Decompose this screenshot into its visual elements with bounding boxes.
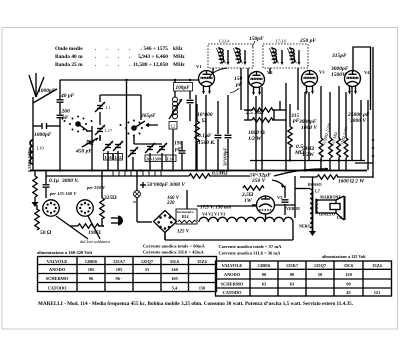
svg-text:Corrente anodica totale = 57 m: Corrente anodica totale = 57 mA xyxy=(219,244,283,249)
svg-text:V3: V3 xyxy=(319,70,325,75)
tube V1 xyxy=(196,64,227,94)
svg-text:140: 140 xyxy=(171,267,178,272)
svg-text:1W: 1W xyxy=(244,198,253,204)
main bus xyxy=(30,170,367,172)
wires heater to V5 xyxy=(164,233,166,241)
R14 box xyxy=(176,209,197,224)
svg-text:0.1μF: 0.1μF xyxy=(198,133,212,139)
tube V3 xyxy=(302,70,326,95)
svg-text:alimentazione a 160-220 Volt: alimentazione a 160-220 Volt xyxy=(37,250,93,255)
2.5 ohm 1W xyxy=(243,186,264,190)
svg-text:1500V: 1500V xyxy=(331,72,347,78)
svg-text:V4: V4 xyxy=(364,70,370,75)
svg-text:3000 V: 3000 V xyxy=(349,118,367,124)
svg-text:Banda 25 m: Banda 25 m xyxy=(55,62,83,68)
svg-text:Corrente anodica 31L6 = 36 m: Corrente anodica 31L6 = 36 mA xyxy=(219,251,282,256)
stub wires below bus xyxy=(113,171,161,176)
plug xyxy=(111,216,123,226)
IF transformer 1 dashed box L3,L4 xyxy=(208,44,253,68)
svg-text:35C6: 35C6 xyxy=(344,263,355,268)
trimmer L1 xyxy=(95,102,105,112)
electrolytic xyxy=(284,186,286,198)
svg-text:190Ω: 190Ω xyxy=(88,230,101,236)
tube V4 xyxy=(345,70,371,94)
svg-text:250 pF: 250 pF xyxy=(299,38,316,44)
svg-text:96 -: 96 - xyxy=(116,276,123,281)
svg-text:250 V: 250 V xyxy=(251,178,267,184)
svg-text:L17: L17 xyxy=(105,128,113,133)
left table xyxy=(38,257,217,292)
heater socket diamond xyxy=(154,211,177,233)
svg-text:1000pF: 1000pF xyxy=(38,88,56,94)
1600 ohm 2W xyxy=(317,175,338,179)
top right feedback loop xyxy=(353,47,371,110)
svg-text:per 125-160 V: per 125-160 V xyxy=(49,191,77,196)
svg-text:1/2W: 1/2W xyxy=(302,152,315,158)
svg-text:0,5MΩ 1/2W: 0,5MΩ 1/2W xyxy=(27,149,32,172)
socket 2 xyxy=(77,200,93,216)
IF transformer 2 dashed box L5,L6 xyxy=(263,44,308,68)
svg-text:per 220 V: per 220 V xyxy=(86,185,106,190)
0.1u 3000V xyxy=(34,170,36,176)
tuner verticals xyxy=(99,135,101,141)
svg-text:105: 105 xyxy=(116,267,123,272)
svg-text:1/2 W: 1/2 W xyxy=(248,136,262,142)
svg-text:MHz: MHz xyxy=(173,62,185,68)
svg-text:315pF: 315pF xyxy=(331,53,347,59)
svg-text:105: 105 xyxy=(88,267,95,272)
svg-text:325Ω: 325Ω xyxy=(103,195,117,201)
svg-text:5,4: 5,4 xyxy=(172,285,178,290)
svg-text:12BE6: 12BE6 xyxy=(258,263,271,268)
svg-text:100pF: 100pF xyxy=(176,85,191,91)
svg-text:SCHERMO: SCHERMO xyxy=(46,276,69,281)
svg-text:105: 105 xyxy=(171,276,178,281)
svg-text:SCHERMO: SCHERMO xyxy=(221,281,244,286)
svg-text:3000 V.: 3000 V. xyxy=(61,178,79,184)
svg-text:L16: L16 xyxy=(105,155,113,160)
svg-text:alimentazione a 125 Volt: alimentazione a 125 Volt xyxy=(322,254,366,259)
svg-text:V4 V2 V1 V3: V4 V2 V1 V3 xyxy=(202,212,225,217)
rail tick marks xyxy=(372,140,375,156)
svg-text:dal lato saldatura: dal lato saldatura xyxy=(80,239,110,244)
svg-text:121: 121 xyxy=(374,290,381,295)
mid wires vertical xyxy=(212,68,214,73)
svg-text:ROSSO: ROSSO xyxy=(308,182,322,187)
trimmer L17 xyxy=(95,125,105,135)
svg-text:125K7: 125K7 xyxy=(286,263,299,268)
svg-text:125Q7: 125Q7 xyxy=(314,263,327,268)
svg-text:120: 120 xyxy=(345,272,352,277)
svg-text:kHz: kHz xyxy=(173,46,183,52)
svg-text:L1: L1 xyxy=(106,105,111,110)
left column wires xyxy=(33,125,42,127)
svg-text:125 V: 125 V xyxy=(177,230,190,235)
svg-text:265pF: 265pF xyxy=(140,113,156,119)
svg-text:L2: L2 xyxy=(171,124,176,129)
frequency table text xyxy=(55,46,185,68)
svg-text:L14: L14 xyxy=(167,156,175,161)
antenna xyxy=(29,73,57,170)
svg-text:125Q7: 125Q7 xyxy=(141,259,154,264)
svg-text:Onde medie: Onde medie xyxy=(55,46,83,52)
svg-text:VALVOLE: VALVOLE xyxy=(222,263,243,268)
svg-text:GIALLO: GIALLO xyxy=(319,212,335,217)
svg-text:Corrente anodica totale = 60mA: Corrente anodica totale = 60mA xyxy=(143,244,205,249)
svg-text:1000pF: 1000pF xyxy=(34,132,52,138)
0.5 Mohm top resistor row xyxy=(46,175,189,177)
svg-text:VERDE: VERDE xyxy=(286,206,300,211)
L2 oscillator coil xyxy=(174,80,176,97)
top horizontal wire xyxy=(60,79,200,81)
lamp m xyxy=(134,191,141,198)
svg-text:35Z4: 35Z4 xyxy=(372,263,382,268)
svg-text:Banda 40 m: Banda 40 m xyxy=(55,54,83,60)
lower trimmers row xyxy=(103,141,113,151)
svg-text:CATODO: CATODO xyxy=(48,285,67,290)
right table xyxy=(216,261,392,296)
svg-text:R14: R14 xyxy=(182,215,189,219)
svg-text:546 ÷ 1575: 546 ÷ 1575 xyxy=(143,46,168,52)
svg-text:ANODO: ANODO xyxy=(224,272,241,277)
corrente text right xyxy=(219,244,367,259)
svg-text:11,580 ÷ 12,050: 11,580 ÷ 12,050 xyxy=(133,62,168,68)
svg-text:L7: L7 xyxy=(315,189,320,194)
svg-text:CATODO: CATODO xyxy=(223,290,242,295)
svg-text:V1: V1 xyxy=(196,64,202,69)
svg-text:125A7: 125A7 xyxy=(113,259,126,264)
svg-text:35Z4: 35Z4 xyxy=(197,259,207,264)
diagonal pointer lines xyxy=(56,216,88,239)
svg-text:31L6: 31L6 xyxy=(170,259,180,264)
svg-text:Corrente anodica 31L6 = 42mA: Corrente anodica 31L6 = 42mA xyxy=(143,250,204,255)
svg-text:Termosiero: Termosiero xyxy=(177,210,194,214)
svg-text:MHz: MHz xyxy=(173,54,185,60)
svg-text:pF: pF xyxy=(174,147,182,153)
corrente text left xyxy=(37,244,205,256)
svg-text:MARELLI - Mod. 114 - Media fre: MARELLI - Mod. 114 - Media frequenza 455… xyxy=(38,301,354,307)
svg-text:50 Ω: 50 Ω xyxy=(40,230,52,236)
190 ohm resistor xyxy=(78,224,99,228)
10000 ohm resistor vertical xyxy=(196,104,198,121)
wafer switch 2 xyxy=(120,120,149,137)
2.5M resistors xyxy=(252,108,273,112)
svg-text:0.1μ: 0.1μ xyxy=(49,178,59,184)
svg-text:150: 150 xyxy=(199,285,206,290)
coil L10 xyxy=(30,140,33,164)
svg-text:1500 K.: 1500 K. xyxy=(198,140,215,146)
svg-text:L52: L52 xyxy=(115,155,122,160)
450pF variable xyxy=(82,138,98,147)
svg-text:L10: L10 xyxy=(37,146,45,151)
svg-text:NERO: NERO xyxy=(299,224,311,229)
svg-text:40 pF: 40 pF xyxy=(60,93,75,99)
svg-text:ANODO: ANODO xyxy=(49,267,66,272)
svg-text:1000 V: 1000 V xyxy=(301,125,318,131)
svg-text:12BE6: 12BE6 xyxy=(85,259,98,264)
right resistor bank verticals xyxy=(319,138,323,158)
svg-text:L8: L8 xyxy=(337,215,342,220)
speaker xyxy=(316,196,345,220)
svg-text:260: 260 xyxy=(61,109,71,115)
socket 1 xyxy=(43,200,59,216)
wafer switch 1 xyxy=(64,116,93,133)
svg-text:50’000pF: 50’000pF xyxy=(223,148,228,166)
50 ohm resistor xyxy=(36,205,38,210)
svg-text:1600 Ω 2 W: 1600 Ω 2 W xyxy=(338,179,365,185)
horizontal wires right xyxy=(250,160,365,162)
tube V5 xyxy=(257,195,284,214)
junction dots xyxy=(59,79,347,172)
svg-text:150pF: 150pF xyxy=(249,36,264,42)
svg-text:2.5 MΩ: 2.5 MΩ xyxy=(245,110,264,116)
svg-text:VALVOLE: VALVOLE xyxy=(47,259,68,264)
svg-text:450 pF: 450 pF xyxy=(75,149,92,155)
svg-text:50’000pF 3000 V: 50’000pF 3000 V xyxy=(147,182,185,188)
tube V2 xyxy=(249,70,274,95)
svg-text:220: 220 xyxy=(166,201,175,206)
svg-text:5,943 ÷ 6,460: 5,943 ÷ 6,460 xyxy=(138,54,168,60)
svg-text:10÷150%: 10÷150% xyxy=(146,156,163,161)
